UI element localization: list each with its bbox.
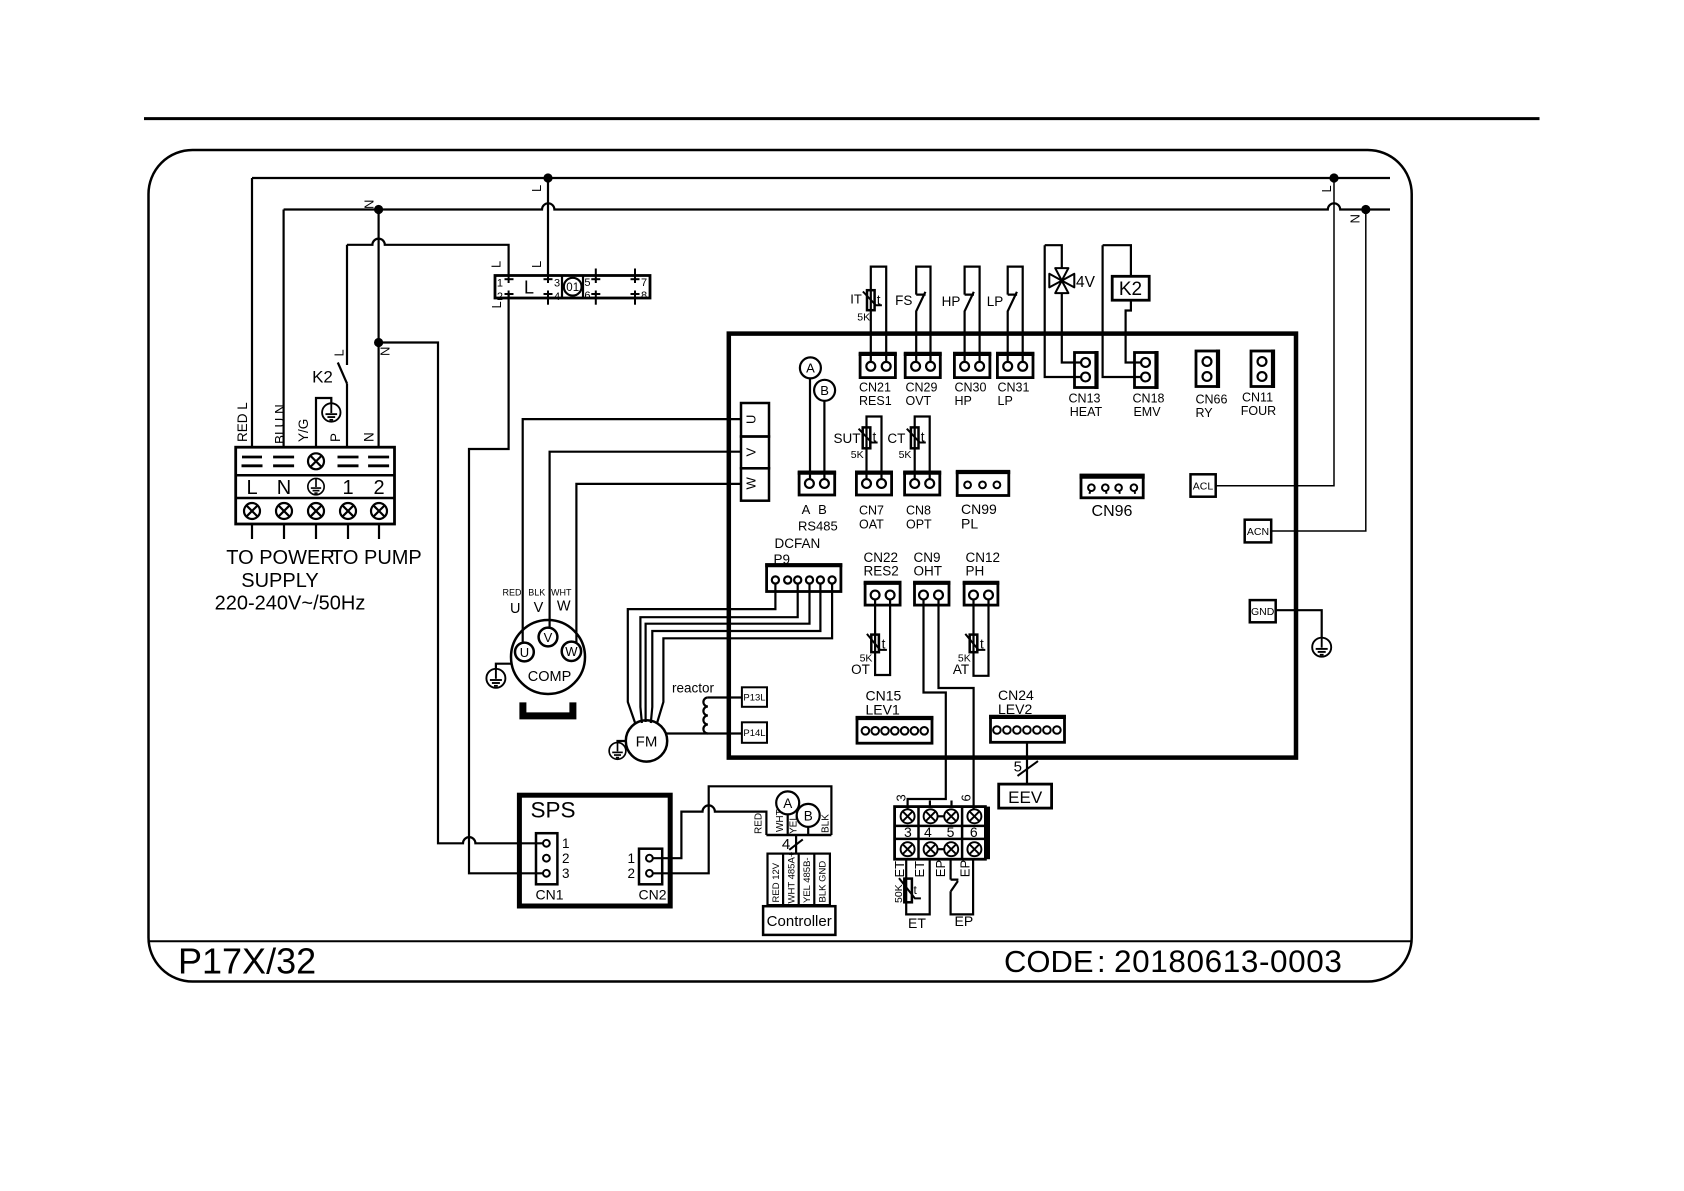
connector CN21 — [859, 354, 897, 378]
svg-text:BLK: BLK — [528, 588, 545, 598]
label RED 12V rotated — [771, 862, 782, 902]
wire RED L drop to terminal — [251, 178, 253, 447]
label t (AT) — [980, 637, 984, 652]
wire FM to reactor — [666, 732, 708, 734]
connector CN7 — [855, 473, 893, 495]
connector CN15 LEV1 — [856, 718, 934, 744]
top rule — [144, 117, 1540, 120]
CN2 pin number 2 — [627, 866, 635, 881]
label CN15 — [866, 688, 902, 704]
svg-text:EP: EP — [933, 860, 948, 877]
PCB main board outline — [729, 334, 1296, 758]
svg-text:3: 3 — [893, 794, 908, 801]
label CN7 — [859, 504, 884, 518]
terminal block main body — [236, 447, 395, 524]
net box GND — [1250, 600, 1276, 622]
CN1 pin number 3 — [562, 866, 570, 881]
connector V box on PCB edge — [741, 437, 769, 469]
svg-text:N: N — [378, 347, 393, 356]
label LEV2 — [998, 701, 1032, 717]
wire N to terminal 2 — [378, 343, 380, 448]
link 4-5 top — [938, 815, 945, 817]
wire U to COMP — [523, 419, 741, 643]
terminal L screw bottom — [244, 503, 260, 519]
svg-text:2: 2 — [373, 477, 384, 499]
label YEL 485B- rotated — [802, 857, 813, 903]
thermistor OT loop — [875, 600, 890, 676]
connector P13L box — [742, 687, 767, 707]
wire DCFAN pin5 to FM — [651, 584, 821, 723]
relay pin4 tick — [544, 291, 553, 305]
label 4V — [1076, 274, 1096, 291]
label BLU N rotated — [273, 404, 288, 444]
svg-text:RES2: RES2 — [864, 564, 899, 579]
svg-text:6: 6 — [970, 824, 978, 840]
svg-text:4: 4 — [782, 836, 790, 853]
node N junction (dot) — [374, 338, 383, 347]
inductor reactor coil — [703, 698, 708, 734]
relay pin3 tick — [544, 276, 553, 283]
svg-text:Controller: Controller — [767, 913, 832, 930]
wire DCFAN pin4 to FM — [646, 584, 810, 722]
wire GND to earth — [1276, 610, 1322, 638]
svg-text:reactor: reactor — [672, 681, 715, 696]
terminal stub L — [251, 524, 253, 539]
svg-text:A: A — [806, 361, 815, 376]
label 3 rotated (feed) — [893, 794, 908, 801]
terminal 4 screw top — [924, 809, 938, 823]
board SPS outline — [519, 795, 670, 906]
label CN22 — [864, 550, 899, 565]
label HP (CN30) — [955, 394, 972, 408]
svg-text:1: 1 — [342, 477, 353, 499]
relay pin number 1 — [497, 278, 503, 290]
svg-text:V: V — [744, 448, 759, 457]
svg-text:ET: ET — [908, 915, 926, 931]
wire relay pin3 from L bus — [547, 178, 549, 276]
valve 4V symbol — [1049, 268, 1074, 293]
svg-text:EP: EP — [955, 913, 974, 929]
label HP — [942, 294, 961, 309]
svg-text:RED: RED — [502, 588, 522, 598]
wire W to COMP — [576, 484, 741, 643]
svg-text:CN96: CN96 — [1092, 503, 1133, 520]
label RES1 — [859, 394, 892, 408]
svg-text:RED L: RED L — [235, 402, 250, 442]
connector CN12 — [963, 583, 1000, 605]
label HEAT — [1070, 405, 1103, 419]
terminal 5 stub top — [950, 801, 952, 807]
label t (CT) — [921, 430, 925, 445]
connector CN22 — [864, 583, 902, 605]
ground PE above terminal — [322, 403, 340, 421]
svg-text:t: t — [877, 293, 881, 308]
label CN13 — [1069, 391, 1101, 405]
label EP rotated (terminal 5) — [933, 860, 948, 877]
thermistor CT body — [907, 427, 926, 448]
terminal stub 2 — [378, 524, 380, 539]
terminal PE screw top — [308, 453, 324, 469]
terminal 1 clamp bars — [338, 457, 359, 466]
label 220-240V~/50Hz — [215, 593, 366, 615]
wire FM ground lead — [618, 741, 628, 743]
svg-text:CN18: CN18 — [1133, 391, 1165, 405]
svg-text:5K: 5K — [851, 449, 864, 461]
svg-text:V: V — [544, 630, 553, 645]
svg-text:OPT: OPT — [906, 517, 932, 531]
terminal 2 screw bottom — [371, 503, 387, 519]
wire COMP ground lead — [496, 664, 512, 669]
svg-text:B: B — [820, 383, 829, 398]
wire harness bar — [766, 834, 831, 837]
label TO PUMP — [331, 547, 422, 569]
terminal label 2 — [373, 477, 384, 499]
label B (RS485) — [818, 502, 827, 517]
label WHT 485A+ rotated — [787, 851, 798, 903]
label Y/G rotated — [296, 419, 311, 442]
label L rotated (left bus) — [529, 185, 544, 192]
wire relay pin2 to SPS CN1 pin3 — [469, 294, 543, 873]
thermistor ET body — [899, 878, 921, 902]
terminal 2 clamp bars — [368, 457, 389, 466]
wire N branch drop — [378, 210, 380, 343]
wire A to bar — [787, 814, 789, 835]
svg-text:P17X/32: P17X/32 — [178, 941, 316, 982]
label SPS — [531, 798, 576, 823]
svg-text:CN31: CN31 — [998, 380, 1030, 394]
svg-text:CN8: CN8 — [906, 504, 931, 518]
svg-text:t: t — [873, 430, 877, 445]
svg-text:6: 6 — [959, 794, 974, 801]
svg-text:2: 2 — [562, 851, 570, 866]
wire DCFAN pin6 to FM — [657, 584, 832, 724]
label CN29 — [906, 380, 938, 394]
thermistor AT body — [965, 634, 985, 652]
terminal stub PE — [315, 524, 317, 539]
svg-text:CN21: CN21 — [859, 380, 891, 394]
net box ACN — [1245, 520, 1272, 543]
svg-text:L: L — [489, 261, 504, 268]
svg-text:P13L: P13L — [743, 693, 765, 704]
label N rotated (junction) — [378, 347, 393, 356]
wire K2 contact to relay pin1 (hop over N drop) — [347, 239, 509, 276]
terminal stub N — [283, 524, 285, 539]
terminal 5 screw top — [944, 809, 958, 823]
svg-text:OT: OT — [851, 662, 870, 677]
label EP rotated (terminal 6) — [958, 860, 973, 877]
label 3 — [904, 824, 912, 840]
link 4-5 bottom — [938, 848, 945, 850]
connector CN29 — [904, 354, 942, 378]
thermistor IT loop — [871, 267, 886, 362]
svg-text:OAT: OAT — [859, 517, 884, 531]
connector CN99 — [956, 472, 1010, 496]
COMP mounting bracket — [523, 702, 573, 716]
label 5K (CT) — [899, 449, 912, 461]
terminal 3 screw bottom — [901, 842, 915, 856]
label CODE 20180613-0003 — [1004, 943, 1343, 979]
label BLK GND rotated — [818, 861, 829, 903]
relay pin number 6 — [584, 290, 590, 302]
svg-text:LEV2: LEV2 — [998, 701, 1032, 717]
svg-text:PH: PH — [966, 564, 985, 579]
svg-text:OVT: OVT — [906, 394, 932, 408]
relay 01 circle — [564, 278, 582, 296]
svg-text:CN30: CN30 — [955, 380, 987, 394]
relay pin1 tick — [505, 276, 514, 283]
relay pin6 tick — [591, 291, 600, 305]
label OPT — [906, 517, 932, 531]
thermistor AT loop — [974, 600, 989, 676]
svg-text:CN2: CN2 — [638, 887, 666, 903]
connector CN18 — [1135, 351, 1157, 389]
svg-text:SUT: SUT — [834, 431, 861, 446]
connector DCFAN P9 — [765, 565, 842, 592]
label OHT — [914, 564, 943, 579]
svg-text:IT: IT — [850, 292, 862, 307]
motor FM body — [626, 720, 667, 761]
terminal 1 screw bottom — [340, 503, 356, 519]
relay pin7 tick — [631, 269, 640, 284]
svg-text:V: V — [534, 600, 544, 616]
wire DCFAN pin3 to FM — [640, 584, 797, 723]
wire reactor to P13L — [708, 696, 742, 698]
label CN99 — [961, 501, 997, 517]
switch EP loop — [951, 859, 974, 914]
svg-text:B: B — [804, 808, 813, 823]
terminal label 1 — [342, 477, 353, 499]
CN2 pin1 circle — [646, 855, 653, 862]
label P rotated — [328, 433, 343, 442]
label CN21 — [859, 380, 891, 394]
ground PE at COMP — [486, 669, 505, 688]
label LP — [987, 294, 1004, 309]
svg-text:N: N — [277, 477, 291, 499]
terminal 5 screw bottom — [944, 842, 958, 856]
svg-text:L: L — [529, 185, 544, 192]
svg-text:U: U — [520, 645, 529, 660]
svg-text:CN29: CN29 — [906, 380, 938, 394]
svg-text:ET: ET — [912, 861, 927, 878]
wire B to RS485 pin — [823, 401, 825, 479]
terminal 3 screw top — [901, 809, 915, 823]
svg-text:t: t — [882, 637, 886, 652]
svg-text:CN13: CN13 — [1069, 391, 1101, 405]
wire LEV2 to EEV — [1026, 742, 1028, 784]
switch HP loop — [965, 267, 980, 362]
svg-text:4V: 4V — [1076, 274, 1096, 291]
wire ACL to L bus — [1216, 178, 1334, 486]
svg-text:FOUR: FOUR — [1241, 404, 1276, 418]
svg-text:CN7: CN7 — [859, 504, 884, 518]
svg-text:2: 2 — [497, 291, 503, 303]
svg-text:01: 01 — [566, 282, 579, 294]
connector RS485 — [798, 473, 836, 495]
relay 01 block body — [495, 276, 650, 299]
connector CN66 — [1196, 350, 1218, 389]
svg-text:DCFAN: DCFAN — [775, 536, 821, 551]
label t (SUT) — [873, 430, 877, 445]
label CN24 — [998, 687, 1034, 703]
controller wire label box — [768, 854, 830, 906]
svg-text:220-240V~/50Hz: 220-240V~/50Hz — [215, 593, 366, 615]
svg-text:5K: 5K — [857, 312, 870, 324]
label SUPPLY — [241, 570, 318, 592]
thermistor OT body — [867, 634, 887, 652]
svg-text:HP: HP — [955, 394, 972, 408]
contact K2 upper lead — [346, 245, 348, 365]
label PH — [966, 564, 985, 579]
label t (ET) — [914, 883, 918, 897]
label CN12 — [966, 550, 1001, 565]
label 5K (IT) — [857, 312, 870, 324]
label BLK rotated — [821, 814, 832, 833]
svg-text:t: t — [921, 430, 925, 445]
svg-text::: : — [1097, 944, 1106, 979]
contact K2 blade — [338, 363, 347, 384]
wire CN2 pin1 to RED (hop) — [653, 805, 767, 858]
label CN96 — [1092, 503, 1133, 520]
wire B to bar — [807, 827, 809, 835]
svg-text:U: U — [510, 601, 520, 617]
wire DCFAN pin1 to FM — [628, 584, 776, 724]
label EMV — [1133, 405, 1161, 419]
label RED (comp lead) — [502, 588, 522, 598]
label CN31 — [998, 380, 1030, 394]
label N rotated (terminal 2) — [362, 432, 377, 442]
label P17X/32 — [178, 941, 316, 982]
COMP terminal V — [539, 628, 558, 647]
svg-text:TO POWER: TO POWER — [226, 547, 335, 569]
label RED L rotated — [235, 402, 250, 442]
terminal label L — [246, 477, 257, 499]
EEV tally slash — [1018, 761, 1039, 776]
contact K2 lower lead — [346, 384, 348, 448]
relay pin number 8 — [641, 290, 647, 302]
label CN30 — [955, 380, 987, 394]
svg-text:N: N — [1348, 214, 1363, 223]
label 4 (wire count) — [782, 836, 790, 853]
svg-text:SPS: SPS — [531, 798, 576, 823]
thermistor CT loop — [915, 417, 930, 480]
label U (comp lead) — [510, 601, 520, 617]
connector CN11 — [1251, 350, 1273, 389]
thermistor ET loop — [906, 859, 930, 914]
svg-text:3: 3 — [562, 866, 570, 881]
label CN66 — [1196, 393, 1228, 407]
svg-text:5: 5 — [947, 824, 955, 840]
svg-text:CODE: CODE — [1004, 944, 1094, 979]
svg-text:OHT: OHT — [914, 564, 943, 579]
svg-text:L: L — [246, 477, 257, 499]
svg-text:FM: FM — [636, 734, 658, 751]
svg-text:RED: RED — [754, 813, 765, 834]
terminal 4 screw bottom — [924, 842, 938, 856]
outer border frame — [149, 150, 1412, 982]
terminal PE screw bottom — [308, 503, 324, 519]
svg-text:PL: PL — [961, 516, 978, 532]
label EP — [955, 913, 974, 929]
label 5 (wire count) — [1014, 759, 1022, 776]
svg-text:K2: K2 — [312, 368, 333, 387]
terminal block 3456 body — [895, 807, 990, 860]
terminal L clamp bars — [242, 457, 263, 466]
node N (dot at SPS feed branch) — [374, 205, 383, 214]
connector CN96 — [1080, 475, 1145, 498]
svg-text:CN66: CN66 — [1196, 393, 1228, 407]
label reactor — [672, 681, 715, 696]
svg-text:LEV1: LEV1 — [866, 702, 900, 718]
svg-text:5: 5 — [1014, 759, 1022, 776]
terminal N clamp bars — [273, 457, 294, 466]
label LP (CN31) — [998, 394, 1013, 408]
svg-text:EMV: EMV — [1133, 405, 1161, 419]
CN2 pin2 circle — [646, 870, 653, 877]
label RED rotated (controller harness) — [754, 813, 765, 834]
wire BLU N drop to terminal — [283, 210, 285, 448]
relay pin number 5 — [584, 277, 590, 289]
title bar divider — [149, 940, 1412, 942]
svg-text:BLU N: BLU N — [273, 404, 288, 444]
CN1 pin1 circle — [543, 840, 550, 847]
svg-text:4: 4 — [554, 291, 560, 303]
ground PE at FM — [609, 743, 626, 760]
svg-text:EP: EP — [958, 860, 973, 877]
node B2 circle — [797, 804, 820, 827]
svg-text:LP: LP — [987, 294, 1004, 309]
connector CN13 — [1075, 351, 1097, 389]
label W (comp lead) — [557, 599, 571, 615]
thermistor SUT loop — [867, 417, 882, 480]
label L rotated (relay pin1 wire) — [489, 261, 504, 268]
connector CN24 LEV2 — [989, 716, 1066, 742]
label BLK (comp lead) — [528, 588, 545, 598]
svg-text:3: 3 — [554, 278, 560, 290]
svg-text:HEAT: HEAT — [1070, 405, 1103, 419]
terminal 6 screw bottom — [967, 842, 981, 856]
svg-text:L: L — [1319, 185, 1334, 192]
svg-text:5K: 5K — [899, 449, 912, 461]
svg-text:W: W — [744, 477, 759, 490]
label RES2 — [864, 564, 899, 579]
label CN1 — [535, 887, 563, 903]
label YEL rotated — [789, 815, 800, 834]
label t (IT) — [877, 293, 881, 308]
switch LP loop — [1008, 267, 1023, 362]
node L (dot at relay feed) — [543, 173, 552, 182]
label K2 (contact) — [312, 368, 333, 387]
label 6 — [970, 824, 978, 840]
svg-text:ET: ET — [892, 861, 907, 878]
CN1 pin number 2 — [562, 851, 570, 866]
label 5 — [947, 824, 955, 840]
relay pin2 tick — [505, 291, 514, 299]
svg-text:5: 5 — [584, 277, 590, 289]
label ET rotated (terminal 3) — [892, 861, 907, 878]
label LEV1 — [866, 702, 900, 718]
wire harness drop — [795, 835, 797, 854]
label CN9 — [914, 550, 941, 565]
device EEV box — [999, 784, 1052, 808]
connector P14L box — [742, 722, 767, 743]
svg-text:N: N — [362, 200, 377, 209]
label OT — [851, 662, 870, 677]
relay pin number 4 — [554, 291, 560, 303]
wire N bus (with hops) — [284, 203, 1390, 209]
svg-text:BLK GND: BLK GND — [818, 861, 829, 903]
wire V to COMP — [550, 452, 741, 629]
connector U box on PCB edge — [741, 403, 769, 437]
